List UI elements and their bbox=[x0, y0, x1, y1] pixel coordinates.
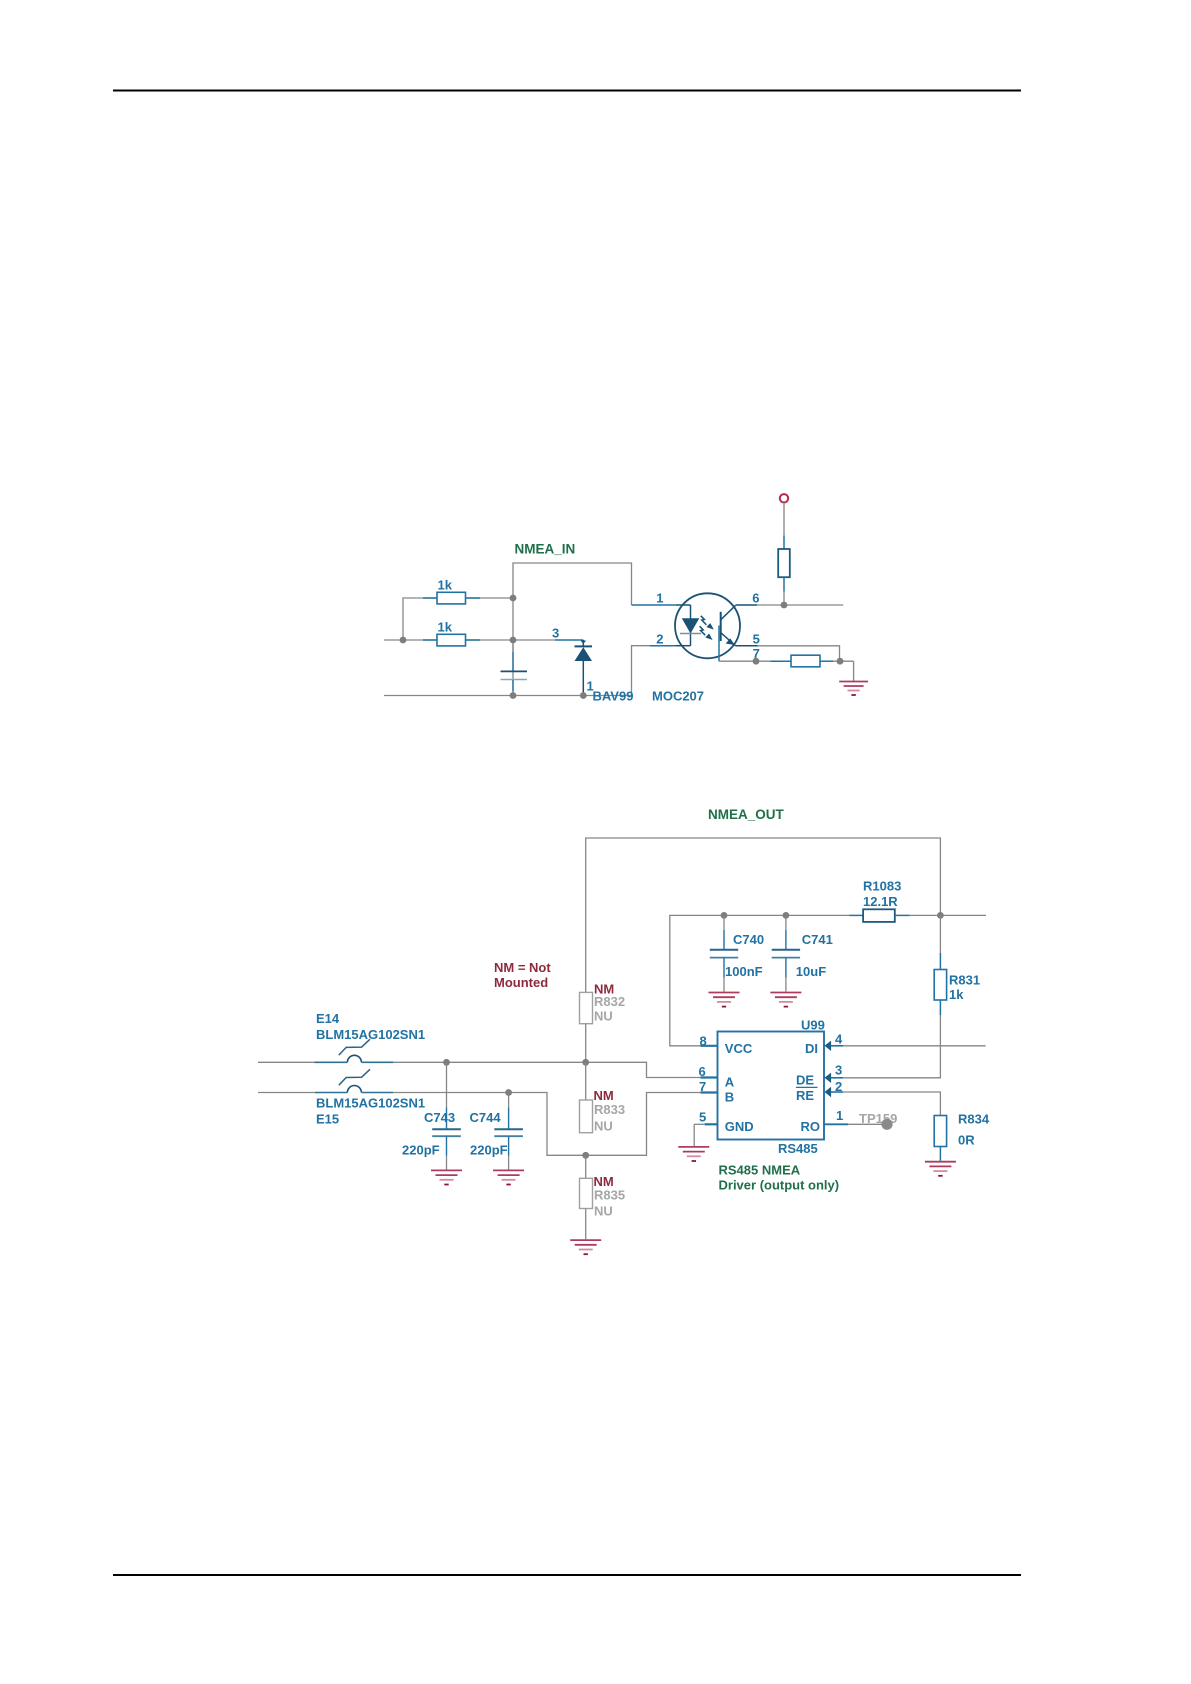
svg-text:6: 6 bbox=[752, 591, 759, 606]
resistor R835 (NM) bbox=[580, 1178, 593, 1208]
wire pin2 lead bbox=[650, 645, 676, 647]
ground (C741) bbox=[770, 993, 801, 1007]
value 0R bbox=[958, 1133, 975, 1148]
pin 7 B stub bbox=[701, 1091, 718, 1093]
label E14 bbox=[316, 1011, 340, 1026]
svg-text:2: 2 bbox=[835, 1079, 842, 1094]
wire left link rows1-2 bbox=[403, 598, 437, 640]
pin number 7 bbox=[699, 1079, 706, 1094]
value 100nF bbox=[725, 964, 763, 979]
net label NMEA_IN bbox=[515, 542, 576, 557]
capacitor C744 bbox=[494, 1093, 523, 1170]
opto phototransistor bbox=[719, 605, 736, 661]
svg-text:MOC207: MOC207 bbox=[652, 689, 704, 704]
pin number 6 (opto) bbox=[752, 591, 759, 606]
wire pullup to pin6 bbox=[783, 592, 785, 606]
diode BAV99 bbox=[555, 640, 592, 696]
svg-text:4: 4 bbox=[835, 1031, 843, 1046]
svg-text:100nF: 100nF bbox=[725, 964, 763, 979]
testpoint TP159 dot bbox=[881, 1119, 892, 1130]
pin number 8 bbox=[700, 1033, 707, 1048]
label NU (R832) bbox=[594, 1008, 613, 1023]
resistor 1k (lower) bbox=[423, 634, 480, 646]
svg-text:R832: R832 bbox=[594, 994, 625, 1009]
junction dot resistor right bbox=[837, 658, 844, 665]
pin 6 A stub bbox=[701, 1076, 718, 1078]
svg-text:R835: R835 bbox=[594, 1188, 625, 1203]
pin 3 DE arrow bbox=[825, 1073, 844, 1083]
svg-text:R1083: R1083 bbox=[863, 879, 901, 894]
value 1k (R831) bbox=[949, 987, 964, 1002]
svg-text:RE: RE bbox=[796, 1088, 814, 1103]
IC internal label RO bbox=[801, 1119, 821, 1134]
wire NMEA_IN top bbox=[513, 563, 632, 696]
svg-text:BAV99: BAV99 bbox=[593, 689, 634, 704]
ground (R834) bbox=[925, 1162, 956, 1176]
page footer rule bbox=[113, 1574, 1021, 1576]
value 10uF bbox=[796, 964, 826, 979]
IC U99 RS485 box bbox=[718, 1032, 825, 1140]
svg-text:R834: R834 bbox=[958, 1111, 990, 1126]
svg-text:B: B bbox=[725, 1090, 734, 1105]
pin number 4 bbox=[835, 1031, 843, 1046]
junction dot pin7 bbox=[753, 658, 760, 665]
resistor 1k (upper) bbox=[423, 592, 480, 604]
wire pin1 lead bbox=[632, 604, 677, 606]
wire R1083 to junction and stub right bbox=[910, 914, 986, 916]
wire row3 bottom bbox=[384, 646, 650, 696]
pin number 2 bbox=[835, 1079, 842, 1094]
pin number 1 bbox=[836, 1108, 843, 1123]
svg-text:RS485: RS485 bbox=[778, 1141, 818, 1156]
svg-text:E14: E14 bbox=[316, 1011, 340, 1026]
wire R833 junction to R835 bbox=[585, 1155, 587, 1178]
svg-text:RS485 NMEA: RS485 NMEA bbox=[719, 1162, 801, 1177]
svg-text:R833: R833 bbox=[594, 1102, 625, 1117]
svg-text:220pF: 220pF bbox=[402, 1142, 440, 1157]
label U99 bbox=[801, 1017, 825, 1032]
pin number 1 (BAV99) bbox=[587, 679, 594, 694]
svg-text:C743: C743 bbox=[424, 1110, 455, 1125]
capacitor C740 bbox=[710, 915, 738, 991]
pin number 5 bbox=[699, 1109, 706, 1124]
capacitor (unlabeled) bbox=[501, 640, 528, 696]
resistor (unlabeled, emitter) bbox=[771, 655, 834, 667]
label E15 bbox=[316, 1111, 339, 1126]
IC internal label DI bbox=[805, 1041, 818, 1056]
IC internal label A bbox=[725, 1074, 735, 1089]
wire pin6 row bbox=[736, 604, 844, 606]
opto light arrows bbox=[700, 616, 713, 639]
value 1k (upper) bbox=[438, 578, 453, 593]
svg-text:NMEA_OUT: NMEA_OUT bbox=[708, 807, 785, 822]
value 220pF (C744) bbox=[470, 1142, 508, 1157]
wire power to resistor bbox=[783, 503, 785, 536]
junction dot C741 bbox=[783, 912, 790, 919]
svg-text:5: 5 bbox=[753, 632, 760, 647]
svg-text:0R: 0R bbox=[958, 1133, 975, 1148]
svg-text:C741: C741 bbox=[802, 932, 833, 947]
junction dot R833 bottom bbox=[582, 1152, 589, 1159]
wire R835 to ground bbox=[585, 1209, 587, 1240]
label NU (R835) bbox=[594, 1204, 613, 1219]
pin 8 VCC stub bbox=[701, 1045, 718, 1047]
label NM (R832) bbox=[594, 981, 614, 996]
IC internal label DE (with bar) bbox=[796, 1072, 818, 1087]
capacitor C741 bbox=[772, 915, 800, 991]
junction dot row3/vert2 bbox=[510, 692, 517, 699]
pin number 2 (opto) bbox=[656, 632, 663, 647]
svg-text:U99: U99 bbox=[801, 1017, 825, 1032]
label BLM15AG102SN1 (E15) bbox=[316, 1095, 425, 1110]
capacitor C743 bbox=[432, 1062, 461, 1169]
power pin (red circle) bbox=[780, 494, 788, 502]
wire row1 right bbox=[466, 597, 514, 599]
opto LED bbox=[676, 605, 701, 646]
wire pin7 row bbox=[719, 660, 771, 662]
svg-text:NU: NU bbox=[594, 1118, 613, 1133]
pin 5 GND stub bbox=[694, 1123, 717, 1125]
svg-text:A: A bbox=[725, 1074, 735, 1089]
net label NMEA_OUT bbox=[708, 807, 785, 822]
junction dot row2/vert2 bbox=[510, 637, 517, 644]
resistor R833 (NM) bbox=[580, 1100, 593, 1133]
label C743 bbox=[424, 1110, 455, 1125]
note RS485 NMEA Driver bbox=[719, 1162, 840, 1192]
IC internal label B bbox=[725, 1090, 734, 1105]
wire DI stub right bbox=[843, 1045, 986, 1047]
label C740 bbox=[733, 932, 764, 947]
label BLM15AG102SN1 (E14) bbox=[316, 1027, 425, 1042]
wire row1 (A net) bbox=[258, 1062, 701, 1077]
label C741 bbox=[802, 932, 833, 947]
svg-text:R831: R831 bbox=[949, 973, 980, 988]
ground (C744) bbox=[493, 1170, 524, 1184]
svg-text:C744: C744 bbox=[470, 1110, 502, 1125]
IC internal label GND bbox=[725, 1119, 754, 1134]
svg-text:NM: NM bbox=[594, 1088, 614, 1103]
label R1083 bbox=[863, 879, 901, 894]
wire R831 to DE pin bbox=[831, 1015, 941, 1077]
svg-text:C740: C740 bbox=[733, 932, 764, 947]
svg-text:RO: RO bbox=[801, 1119, 821, 1134]
pin 1 RO stub bbox=[824, 1123, 848, 1125]
pin number 3 bbox=[835, 1062, 842, 1077]
value 1k (lower) bbox=[438, 620, 453, 635]
resistor (unlabeled, pullup) bbox=[778, 535, 790, 591]
label NU (R833) bbox=[594, 1118, 613, 1133]
label R832 bbox=[594, 994, 625, 1009]
svg-text:E15: E15 bbox=[316, 1111, 339, 1126]
wire R832 to row1 bbox=[585, 1024, 587, 1063]
svg-text:1: 1 bbox=[656, 591, 663, 606]
junction dot pin6 bbox=[781, 602, 788, 609]
pin number 7 (opto) bbox=[753, 646, 760, 661]
wire pin5 row bbox=[736, 646, 840, 661]
junction dot row2 left bbox=[400, 637, 407, 644]
svg-text:NM = Not: NM = Not bbox=[494, 960, 551, 975]
ferrite bead E14 bbox=[315, 1039, 394, 1062]
svg-text:BLM15AG102SN1: BLM15AG102SN1 bbox=[316, 1027, 425, 1042]
ground (U99 GND) bbox=[678, 1147, 709, 1161]
svg-text:BLM15AG102SN1: BLM15AG102SN1 bbox=[316, 1095, 425, 1110]
ground (top circuit) bbox=[839, 682, 868, 696]
label R834 bbox=[958, 1111, 990, 1126]
ground (C743) bbox=[431, 1170, 462, 1184]
page header rule bbox=[113, 90, 1021, 92]
label C744 bbox=[470, 1110, 502, 1125]
junction dot C740 bbox=[721, 912, 728, 919]
svg-text:VCC: VCC bbox=[725, 1041, 753, 1056]
svg-text:DE: DE bbox=[796, 1072, 814, 1087]
svg-text:Driver (output only): Driver (output only) bbox=[719, 1178, 840, 1193]
resistor R834 bbox=[934, 1116, 946, 1161]
svg-text:6: 6 bbox=[699, 1064, 706, 1079]
ground (R835) bbox=[570, 1240, 601, 1254]
junction dot row1/R832 bbox=[582, 1059, 589, 1066]
junction dot row2/C744 bbox=[505, 1089, 512, 1096]
optocoupler U? MOC207 circle bbox=[675, 593, 740, 658]
IC internal label RE bbox=[796, 1088, 814, 1103]
pin number 6 bbox=[699, 1064, 706, 1079]
svg-text:12.1R: 12.1R bbox=[863, 894, 898, 909]
wire row2 bbox=[384, 639, 555, 641]
svg-text:8: 8 bbox=[700, 1033, 707, 1048]
label R833 bbox=[594, 1102, 625, 1117]
label R835 bbox=[594, 1188, 625, 1203]
wire row2 (B net) bbox=[258, 1093, 586, 1156]
wire pin7 to ground bbox=[833, 661, 854, 681]
wire row1 junction to R833 bbox=[585, 1062, 587, 1100]
svg-text:7: 7 bbox=[699, 1079, 706, 1094]
wire NMEA_OUT top bbox=[586, 838, 941, 992]
svg-text:1k: 1k bbox=[949, 987, 964, 1002]
svg-text:NMEA_IN: NMEA_IN bbox=[515, 542, 576, 557]
IC internal label VCC bbox=[725, 1041, 753, 1056]
ground (C740) bbox=[709, 993, 740, 1007]
wire GND pin to ground bbox=[693, 1124, 695, 1146]
svg-text:NU: NU bbox=[594, 1204, 613, 1219]
svg-text:220pF: 220pF bbox=[470, 1142, 508, 1157]
resistor R832 (NM) bbox=[580, 992, 593, 1023]
label TP159 bbox=[859, 1111, 897, 1126]
svg-text:1k: 1k bbox=[438, 620, 453, 635]
label RS485 (part) bbox=[778, 1141, 818, 1156]
pin 4 DI arrow bbox=[825, 1041, 844, 1051]
junction dot row1/vert2 bbox=[510, 595, 517, 602]
value 220pF (C743) bbox=[402, 1142, 440, 1157]
pin number 3 (BAV99) bbox=[552, 626, 559, 641]
wire R833 bottom to pin7 bbox=[586, 1093, 701, 1156]
svg-text:3: 3 bbox=[552, 626, 559, 641]
svg-text:5: 5 bbox=[699, 1109, 706, 1124]
wire VCC net bbox=[670, 915, 849, 1045]
ferrite bead E15 bbox=[315, 1069, 393, 1092]
label MOC207 bbox=[652, 689, 704, 704]
svg-text:3: 3 bbox=[835, 1062, 842, 1077]
junction dot R1083/R831 bbox=[937, 912, 944, 919]
pin 2 RE arrow bbox=[825, 1087, 844, 1097]
label R831 bbox=[949, 973, 980, 988]
svg-text:2: 2 bbox=[656, 632, 663, 647]
svg-text:DI: DI bbox=[805, 1041, 818, 1056]
junction dot BAV99 anode bbox=[580, 692, 587, 699]
pin number 5 (opto) bbox=[753, 632, 760, 647]
wire RO to testpoint bbox=[848, 1123, 887, 1125]
junction dot row1/C743 bbox=[443, 1059, 450, 1066]
note NM = Not Mounted bbox=[494, 960, 551, 990]
svg-text:10uF: 10uF bbox=[796, 964, 826, 979]
pin number 1 (opto) bbox=[656, 591, 663, 606]
value 12.1R bbox=[863, 894, 898, 909]
label NM (R835) bbox=[594, 1174, 614, 1189]
svg-text:NU: NU bbox=[594, 1008, 613, 1023]
svg-text:Mounted: Mounted bbox=[494, 975, 548, 990]
svg-text:1: 1 bbox=[836, 1108, 843, 1123]
label NM (R833) bbox=[594, 1088, 614, 1103]
wire RE to R834 bbox=[843, 1092, 940, 1116]
svg-text:1k: 1k bbox=[438, 578, 453, 593]
resistor R1083 bbox=[849, 909, 910, 922]
label BAV99 bbox=[593, 689, 634, 704]
resistor R831 bbox=[934, 915, 946, 1015]
svg-text:GND: GND bbox=[725, 1119, 754, 1134]
